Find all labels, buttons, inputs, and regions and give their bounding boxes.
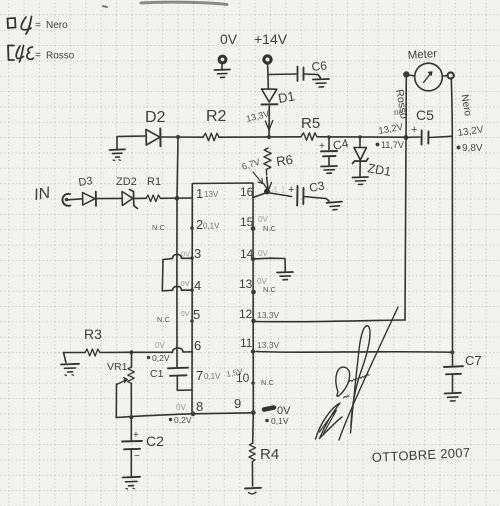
pin 13 [239, 277, 256, 294]
label 11,7V near ZD1 [376, 140, 404, 150]
svg-text:C1: C1 [150, 368, 164, 380]
diode D1 [262, 88, 296, 106]
date OTTOBRE 2007 [371, 445, 470, 465]
wire input riser down to C1 [177, 139, 178, 367]
svg-text:R2: R2 [206, 108, 227, 125]
svg-text:=: = [35, 50, 41, 61]
svg-text:D3: D3 [78, 175, 94, 189]
labels 0V / 0,2V at pin8 [169, 403, 192, 425]
wire IN to D3 [68, 199, 82, 200]
label nc near riser [394, 107, 404, 117]
pin 16 [240, 185, 254, 199]
label 13,2V right of Nero [457, 124, 485, 139]
svg-text:0V: 0V [155, 341, 165, 350]
svg-text:=: = [35, 20, 41, 31]
label 0V pin9 (ink mark) [264, 405, 291, 417]
pin 15 [240, 215, 255, 231]
ground (C2) [123, 477, 141, 489]
pin 4 [181, 278, 202, 293]
svg-text:N.C: N.C [263, 285, 277, 294]
svg-text:R4: R4 [260, 446, 279, 463]
wire C6 to ground [304, 74, 321, 78]
svg-text:0,1V: 0,1V [203, 222, 220, 231]
diode D2 [145, 109, 166, 146]
pin 11 [240, 336, 280, 354]
svg-text:11,7V: 11,7V [381, 140, 404, 150]
wire D3 to ZD2 [96, 197, 122, 199]
svg-text:R1: R1 [147, 176, 161, 188]
svg-text:13V: 13V [204, 190, 219, 199]
junction pin12 corner [251, 319, 256, 324]
IC U1 box [192, 183, 253, 414]
pin 12 [239, 307, 280, 321]
wire R2 to R5 [219, 136, 301, 138]
labels 0V / 0,2V at pin6 [147, 341, 170, 363]
wire pin16 to C3 [253, 193, 292, 198]
capacitor C7 [444, 353, 482, 392]
junction rail pin9 [251, 410, 256, 415]
svg-text:3: 3 [194, 246, 201, 261]
wire rail to C2 [130, 417, 132, 440]
labels pin13 0V N.C [257, 277, 277, 294]
svg-text:+: + [288, 184, 294, 196]
diode D3 [78, 175, 96, 206]
svg-text:C7: C7 [465, 353, 482, 368]
label 13,2V near ZD1 [378, 122, 405, 137]
wire ZD2 to R1 [135, 197, 146, 199]
svg-text:0,2V: 0,2V [152, 353, 170, 363]
wire R1 to pin1 [161, 197, 193, 199]
legend label = Rosso [35, 50, 75, 62]
legend label = Nero [35, 20, 68, 31]
wire loop left side [161, 260, 164, 291]
resistor R6 [264, 148, 294, 175]
node 0V top terminal [219, 31, 238, 69]
svg-text:+: + [411, 124, 417, 136]
pin 10 [226, 367, 255, 385]
svg-text:0,1V: 0,1V [271, 416, 289, 426]
pin 2 [190, 217, 220, 232]
resistor R5 [301, 115, 320, 140]
svg-text:0,2V: 0,2V [174, 415, 192, 425]
svg-text:C6: C6 [311, 58, 328, 74]
meter right terminal (ring) [442, 72, 454, 78]
svg-text:Nero: Nero [46, 20, 68, 31]
wire pin9 down to R4 [252, 413, 255, 443]
label N.C pin2 [152, 223, 166, 232]
svg-text:0V: 0V [176, 403, 186, 412]
svg-text:N.C: N.C [263, 224, 277, 233]
svg-text:N.C: N.C [152, 223, 166, 232]
pin 7 [196, 368, 221, 383]
capacitor C3 [288, 178, 326, 205]
scan smudge top [103, 2, 227, 7]
wire pin12 to riser [256, 320, 405, 322]
meter M [407, 48, 442, 91]
capacitor C6 [298, 58, 328, 81]
wire loop to pin4 (hop over riser) [162, 286, 192, 290]
legend hook symbols (Rosso) [16, 46, 33, 63]
node +14V terminal [254, 31, 288, 63]
svg-text:Rosso: Rosso [46, 51, 75, 62]
svg-text:Meter: Meter [407, 48, 437, 62]
resistor R3 [84, 326, 102, 356]
labels pin15 0V N.C [258, 215, 277, 233]
wire Nero drop (meter to C7) [451, 79, 452, 365]
junction Rosso / meter riser [404, 135, 409, 140]
resistor R1 [146, 176, 161, 202]
svg-text:13: 13 [239, 277, 253, 291]
ground (main rail left) [110, 149, 126, 160]
wire pin3 to loop (hop over riser) [163, 254, 192, 259]
svg-text:1: 1 [196, 186, 203, 201]
svg-text:11: 11 [240, 336, 253, 350]
capacitor C2 [122, 430, 164, 476]
wire pin6 to R3 junction (hop over riser) [132, 348, 193, 352]
svg-text:0,1V: 0,1V [204, 372, 221, 381]
svg-text:0V: 0V [220, 31, 238, 47]
svg-text:16: 16 [240, 185, 254, 199]
label Nero (vertical) [459, 94, 474, 118]
wire R3 to ground [64, 353, 86, 363]
svg-text:0V: 0V [181, 279, 190, 288]
wire Rosso riser (meter to main rail to pin12 rail) [405, 78, 406, 320]
svg-text:N.C: N.C [261, 378, 275, 387]
zener diode ZD2 [116, 176, 138, 209]
meter left terminal (dot) [403, 71, 415, 77]
svg-text:9: 9 [234, 396, 241, 411]
pin 6 [194, 338, 201, 353]
svg-text:C2: C2 [146, 433, 164, 449]
signature flourish [316, 307, 399, 440]
wire C3 to ground [304, 197, 330, 202]
junction rail VR1/C2 [129, 415, 133, 419]
svg-text:4: 4 [194, 278, 201, 293]
pin 5 [181, 307, 201, 323]
legend square symbol (Nero plug) [8, 18, 16, 28]
wire D2 to R2 [161, 136, 203, 138]
pin 14 [240, 247, 268, 261]
ground (ZD1) [353, 177, 369, 185]
svg-text:VR1: VR1 [107, 361, 128, 373]
capacitor C5 [408, 107, 452, 145]
ground (C4) [321, 166, 337, 173]
junction rail pin8 [191, 411, 196, 416]
svg-text:0V: 0V [258, 249, 268, 258]
VR1 wiper arrow [117, 378, 128, 385]
label 6,7V with arrow at R6 [241, 157, 263, 184]
svg-text:0V: 0V [181, 309, 190, 318]
resistor R2 [203, 108, 227, 141]
label Rosso (vertical) [393, 88, 410, 120]
svg-text:6: 6 [194, 338, 201, 353]
junction riser at pin1 wire [175, 196, 180, 201]
zener diode ZD1 [353, 137, 393, 179]
wire R5 to Rosso node [318, 136, 406, 138]
svg-text:ZD2: ZD2 [116, 176, 137, 188]
ground (C3) [327, 202, 343, 210]
potentiometer VR1 [107, 352, 134, 417]
svg-text:8: 8 [196, 399, 203, 414]
junction C7 top [450, 350, 454, 354]
pin 1 [196, 186, 219, 201]
junction R3/VR1 node [129, 350, 133, 354]
svg-text:R6: R6 [275, 152, 294, 169]
svg-text:13,3V: 13,3V [257, 310, 280, 320]
wire R3 to junction [100, 351, 132, 353]
node IN terminal [33, 185, 71, 206]
ground (pin14) [277, 272, 293, 280]
svg-text:R3: R3 [84, 326, 102, 342]
svg-text:D2: D2 [145, 109, 166, 126]
junction C4 [327, 135, 330, 138]
svg-text:+14V: +14V [254, 31, 288, 47]
svg-text:4,1: 4,1 [272, 185, 286, 196]
label 9,8V right of Nero [457, 143, 483, 154]
svg-text:C3: C3 [308, 178, 326, 195]
junction D1/R6 on main rail [267, 135, 271, 139]
wire branch to C6 [268, 73, 296, 76]
wire bottom rail [116, 413, 253, 418]
junction ZD1 [358, 135, 361, 138]
pin 9 [234, 396, 241, 411]
label 0,1V pin9 [265, 416, 289, 426]
svg-text:R5: R5 [301, 115, 320, 132]
svg-text:N.C: N.C [157, 315, 171, 324]
svg-text:0V: 0V [258, 215, 268, 224]
svg-text:7: 7 [196, 368, 203, 383]
wire pin11 to C7 [256, 351, 452, 354]
resistor R4 [249, 443, 279, 463]
wire main rail left end [117, 136, 146, 149]
svg-text:C5: C5 [416, 107, 434, 123]
wire +14V terminal down to D1 [267, 64, 270, 88]
legend hook symbol (Nero) [21, 17, 31, 35]
svg-text:−: − [134, 451, 140, 462]
legend bracket symbol (Rosso plug) [8, 46, 14, 61]
svg-text:13,3V: 13,3V [257, 340, 280, 350]
capacitor C4 [319, 136, 350, 166]
svg-text:D1: D1 [277, 88, 296, 106]
svg-text:9,8V: 9,8V [462, 143, 483, 154]
wire pin14 to ground [253, 258, 285, 271]
svg-text:+: + [133, 430, 139, 441]
pin 3 [181, 246, 201, 261]
wire R6 to pin16 junction (current arrow) [264, 177, 272, 191]
label N.C pin10 [261, 378, 275, 387]
svg-text:5: 5 [193, 307, 200, 322]
wire wiper down to rail [115, 384, 117, 418]
label N.C pin5 [157, 315, 171, 324]
junction input riser on main rail [176, 135, 180, 139]
ground (R3) [61, 364, 79, 376]
ground (R4) [245, 488, 261, 494]
ground (C6) [313, 79, 329, 87]
svg-text:12: 12 [239, 307, 253, 321]
label 13,3V at D1 [245, 109, 270, 124]
wire R4 to ground [251, 462, 253, 486]
svg-text:0V: 0V [181, 250, 190, 259]
faint erased label near pin16 [272, 185, 286, 196]
wire D1 to main rail (current arrow) [265, 106, 273, 137]
junction pin16 / C3 [264, 189, 270, 195]
ground (0V terminal) [215, 70, 231, 78]
ground (C7) [445, 393, 462, 401]
capacitor C1 [150, 368, 192, 391]
pin 8 [196, 399, 203, 414]
